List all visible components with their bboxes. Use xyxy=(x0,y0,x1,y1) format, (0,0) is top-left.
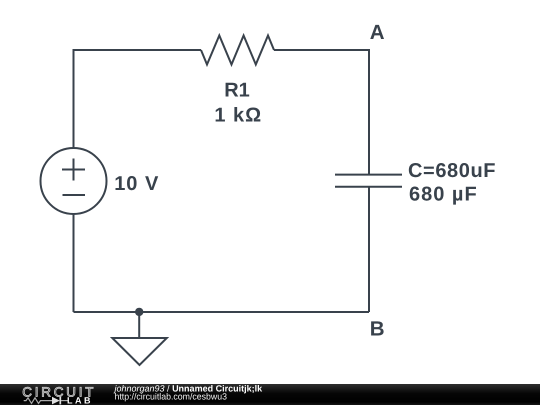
logo resistor squiggle xyxy=(24,398,52,404)
wire bottom horizontal xyxy=(74,311,370,313)
wire top-left horizontal xyxy=(74,49,202,51)
resistor R1 xyxy=(201,36,274,65)
wire top-right horizontal xyxy=(274,49,369,51)
wire right upper vertical xyxy=(368,49,370,175)
logo diode symbol xyxy=(52,397,60,405)
voltage source V1 circle xyxy=(41,148,107,214)
voltage source plus sign xyxy=(62,159,85,181)
svg-text:B: B xyxy=(370,318,385,341)
svg-text:R1: R1 xyxy=(224,80,250,102)
svg-text:http://circuitlab.com/cesbwu3: http://circuitlab.com/cesbwu3 xyxy=(115,392,228,402)
svg-text:680 µF: 680 µF xyxy=(409,184,478,206)
ground stub wire xyxy=(138,312,140,338)
capacitor C1 bottom plate xyxy=(335,186,402,188)
node junction dot xyxy=(135,308,143,316)
capacitor C1 top plate xyxy=(335,174,402,176)
wire right lower vertical xyxy=(368,187,370,312)
svg-text:C=680uF: C=680uF xyxy=(408,160,496,182)
ground symbol triangle xyxy=(112,338,167,365)
svg-text:1 kΩ: 1 kΩ xyxy=(214,104,262,126)
svg-text:10 V: 10 V xyxy=(114,173,159,195)
wire left lower vertical xyxy=(73,214,75,312)
voltage source minus sign xyxy=(63,194,86,196)
svg-text:A: A xyxy=(370,21,385,44)
logo wire after diode xyxy=(61,400,68,402)
svg-text:LAB: LAB xyxy=(67,396,93,405)
wire left upper vertical xyxy=(73,49,75,148)
